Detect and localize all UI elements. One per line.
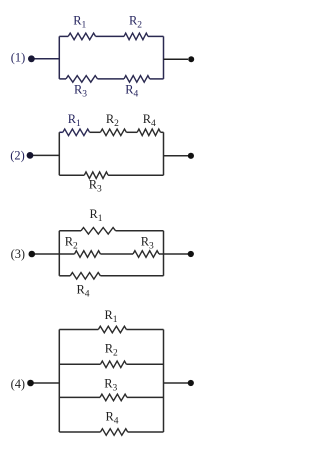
svg-text:(3): (3) xyxy=(11,247,25,261)
svg-text:(4): (4) xyxy=(11,377,25,391)
svg-text:(1): (1) xyxy=(11,51,25,65)
svg-text:(2): (2) xyxy=(10,148,24,162)
